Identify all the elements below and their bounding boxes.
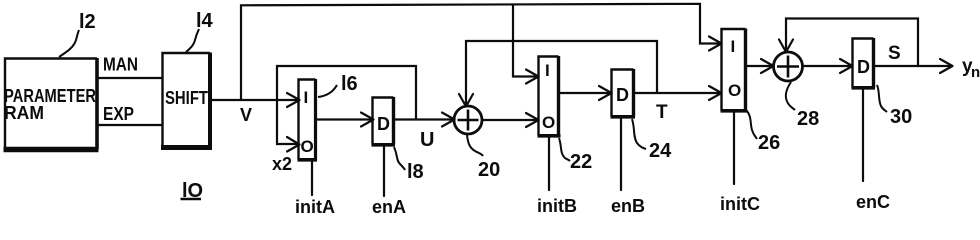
svg-text:20: 20 [478,159,500,181]
arrow into I of 16 [287,93,300,107]
svg-text:I: I [731,37,736,56]
label 28 with leader [786,82,819,130]
svg-text:SHIFT: SHIFT [165,88,208,108]
svg-text:D: D [857,57,870,77]
arrow to yn [940,59,953,73]
svg-text:26: 26 [758,132,780,154]
svg-text:D: D [377,114,390,134]
svg-text:U: U [420,129,434,151]
label 16 with leader [318,73,358,97]
svg-text:initB: initB [537,196,577,214]
svg-text:initC: initC [720,194,760,214]
svg-text:D: D [616,85,629,105]
svg-text:enC: enC [856,192,890,212]
label 24 with leader [632,119,672,162]
svg-text:I: I [545,61,550,80]
register I/O box 22 [538,56,561,136]
label 22 with leader [559,138,592,173]
svg-text:l4: l4 [196,10,214,32]
register I/O box 26 [721,29,748,111]
svg-text:n: n [971,64,980,81]
svg-text:I: I [304,88,309,107]
wire EXP line [98,124,162,126]
register I/O box 16 [298,79,318,160]
figure number 10 underlined [181,180,204,202]
svg-text:RAM: RAM [4,103,44,123]
D block 24 [611,69,636,117]
svg-text:V: V [240,105,252,125]
adder U2 (28) [774,52,803,81]
label 30 with leader [877,85,912,128]
svg-text:30: 30 [890,106,912,128]
wire right feedback loop around D30 [786,19,918,67]
svg-text:enA: enA [372,197,406,214]
wire adder20 out to register22 O [482,119,536,121]
arrow into adder20 left [442,113,455,127]
arrow into D30 [840,59,853,73]
svg-text:S: S [888,43,901,64]
wire branch down to initB register I input [513,5,536,77]
D block 18 [372,97,396,145]
wire adder28 out to D30 [803,65,850,67]
parameter RAM box 12 [4,58,99,150]
label 20 with leader [467,135,500,181]
D block 30 [852,38,876,88]
svg-text:initA: initA [295,197,335,214]
svg-text:28: 28 [797,108,819,130]
label 18 with leader [394,147,424,183]
arrow into I of 26 [709,37,722,51]
arrow into adder20 top [459,94,473,107]
wire enC stub [862,88,864,181]
wire initA stub [311,160,313,195]
wire top long feedforward V bus [241,4,720,100]
svg-text:enB: enB [611,196,645,214]
svg-text:O: O [728,81,741,100]
wire V line from SHIFT to I input of 16 [212,99,297,101]
arrow into O of 26 [709,86,722,100]
arrow into D18 [361,113,374,127]
svg-text:MAN: MAN [103,55,138,75]
wire register22 out to D24 [559,92,609,94]
svg-text:22: 22 [570,151,592,173]
wire enB stub [620,117,622,190]
wire x2 feedback loop [277,66,416,144]
wire MAN line [98,77,162,79]
wire register16 to D18 [316,118,370,120]
arrowheads [287,37,953,152]
wire U line D18 to adder20 [394,118,452,120]
SHIFT box 14 [161,53,212,148]
svg-text:O: O [542,113,555,132]
arrow into adder28 top [779,40,793,53]
svg-text:l8: l8 [407,161,424,183]
svg-text:l6: l6 [341,73,358,95]
wire register26 out to adder28 [746,65,771,67]
svg-text:O: O [301,137,314,156]
wire initC stub [733,111,735,184]
svg-text:T: T [656,102,668,123]
arrow into O of 22 [526,113,539,127]
label 12 with leader [59,11,96,57]
label 14 with leader [186,10,214,52]
svg-text:x2: x2 [272,154,292,174]
arrow into adder28 left [761,59,774,73]
arrow into I of 22 [526,70,539,84]
wire T line D24 to register26 O input [634,92,720,94]
arrow into O of 16 [287,137,300,152]
adder U1 (20) [454,106,482,134]
arrow into D24 [599,86,612,100]
svg-text:24: 24 [649,140,672,162]
wire D30 out to yn [875,65,950,67]
wire initB stub [548,136,550,190]
svg-text:EXP: EXP [103,104,134,124]
wire enA stub [383,145,385,196]
wire adder20 feedback from T [466,41,657,104]
label 26 with leader [746,110,780,154]
svg-text:l2: l2 [79,11,96,33]
